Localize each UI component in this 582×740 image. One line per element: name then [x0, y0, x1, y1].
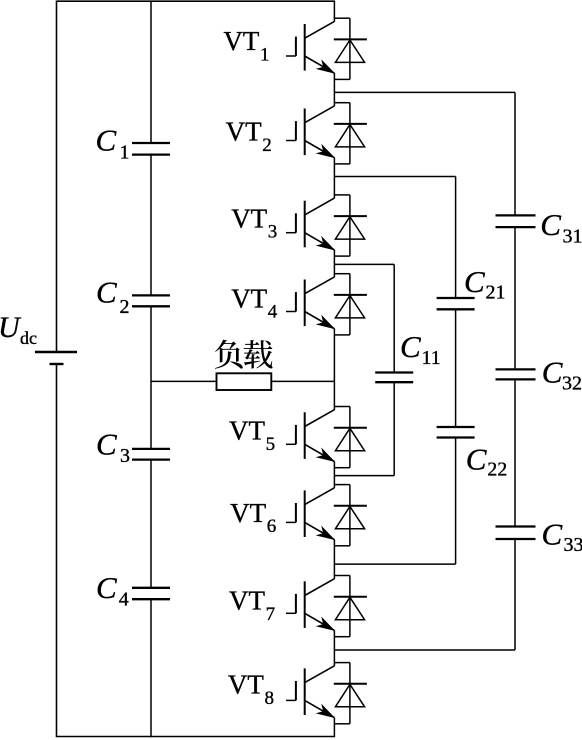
wire left rail upper: [56, 1, 58, 353]
wire C21-C22 rail middle: [455, 309, 457, 427]
svg-text:C: C: [400, 329, 421, 364]
wire top rail: [57, 0, 335, 2]
node B wire to C21 rail: [334, 176, 455, 178]
svg-text:11: 11: [422, 347, 441, 369]
wire left rail lower: [56, 364, 58, 737]
transistor VT4: [286, 273, 367, 335]
svg-text:31: 31: [563, 226, 582, 248]
svg-text:4: 4: [268, 302, 278, 323]
capacitor C11: [375, 371, 413, 373]
node F wire to C22 rail bottom: [334, 563, 455, 565]
label load (fuzai): [215, 340, 273, 369]
transistor VT1: [286, 18, 367, 80]
svg-text:3: 3: [120, 445, 130, 467]
svg-text:C: C: [542, 517, 563, 552]
transistor VT3: [286, 194, 367, 256]
svg-text:1: 1: [260, 45, 270, 66]
svg-text:VT: VT: [231, 283, 267, 313]
svg-text:C: C: [466, 442, 487, 477]
wire C32-C33 rail middle: [514, 379, 516, 526]
transistor VT8: [286, 662, 367, 724]
wire capacitor-string rail segment 2: [150, 155, 152, 296]
svg-text:5: 5: [266, 434, 276, 455]
svg-text:33: 33: [564, 534, 582, 556]
svg-text:7: 7: [266, 604, 276, 625]
wire C33 rail lower: [514, 539, 516, 650]
wire capacitor-string rail segment 3: [150, 306, 152, 449]
wire C11 rail upper: [393, 264, 395, 372]
svg-text:3: 3: [268, 222, 278, 243]
wire C21 rail upper: [455, 177, 457, 299]
resistor load box: [217, 373, 272, 390]
wire bus segment 4 (through load node D): [333, 329, 335, 407]
wire bus segment bottom: [333, 718, 335, 738]
wire bus segment 3: [333, 250, 335, 274]
transistor VT2: [286, 102, 367, 164]
svg-text:VT: VT: [228, 670, 264, 700]
wire C22 rail lower: [455, 438, 457, 565]
wire load left: [151, 380, 217, 382]
svg-text:C: C: [542, 355, 563, 390]
svg-text:8: 8: [265, 688, 275, 709]
svg-text:2: 2: [120, 296, 130, 318]
svg-text:VT: VT: [231, 203, 267, 233]
wire C31-C32 rail middle: [514, 227, 516, 369]
capacitor C32: [496, 368, 536, 370]
transistor VT7: [286, 575, 367, 637]
wire bus segment 1: [333, 73, 335, 103]
svg-text:C: C: [96, 275, 117, 310]
capacitor C31: [496, 214, 536, 216]
svg-text:C: C: [464, 264, 485, 299]
capacitor C33: [496, 525, 536, 527]
node E wire to C11 rail bottom: [334, 475, 394, 477]
svg-text:C: C: [96, 570, 117, 605]
capacitor C22: [437, 426, 475, 428]
capacitor C1: [132, 142, 170, 144]
wire bus segment top: [333, 1, 335, 19]
capacitor C4: [132, 587, 170, 589]
transistor VT6: [286, 484, 367, 546]
svg-text:1: 1: [120, 142, 130, 164]
node G wire to C33 rail bottom: [334, 649, 515, 651]
wire bus segment 6: [333, 540, 335, 576]
svg-text:2: 2: [262, 135, 272, 156]
node A wire to C31 rail: [334, 91, 515, 93]
svg-text:VT: VT: [223, 26, 259, 56]
battery U_dc long plate: [35, 351, 77, 353]
wire load right: [271, 380, 334, 382]
wire bus segment 2: [333, 158, 335, 195]
svg-text:21: 21: [486, 282, 506, 304]
battery U_dc short plate: [50, 363, 64, 365]
wire bottom rail: [57, 736, 335, 738]
wire capacitor-string rail segment 5: [150, 599, 152, 737]
wire C31 rail upper: [514, 92, 516, 215]
svg-text:C: C: [96, 123, 117, 158]
svg-text:U: U: [0, 311, 22, 344]
wire bus segment 7: [333, 631, 335, 663]
wire bus segment 5: [333, 462, 335, 485]
wire C11 rail lower: [393, 382, 395, 475]
svg-text:VT: VT: [230, 498, 266, 528]
wire capacitor-string rail segment 4: [150, 460, 152, 588]
svg-text:4: 4: [119, 589, 129, 611]
transistor VT5: [286, 406, 367, 468]
svg-text:22: 22: [487, 459, 507, 481]
svg-text:VT: VT: [229, 586, 265, 616]
capacitor C21: [437, 297, 475, 299]
svg-text:VT: VT: [229, 416, 265, 446]
svg-text:6: 6: [267, 516, 277, 537]
svg-text:32: 32: [562, 373, 582, 395]
svg-text:C: C: [540, 207, 561, 242]
node C wire to C11 rail: [334, 263, 394, 265]
capacitor C3: [132, 448, 170, 450]
capacitor C2: [132, 294, 170, 296]
svg-text:C: C: [96, 427, 117, 462]
svg-text:VT: VT: [226, 117, 262, 147]
svg-text:dc: dc: [20, 328, 37, 348]
wire capacitor-string rail segment 1: [150, 1, 152, 144]
